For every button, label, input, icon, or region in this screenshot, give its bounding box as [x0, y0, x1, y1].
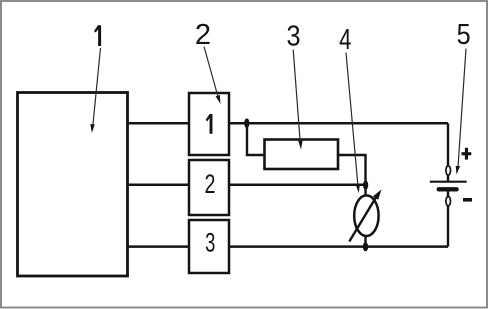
- leader arrow to resistor R1: [293, 50, 302, 150]
- connector X1 cell 3: [189, 220, 229, 273]
- meter PV1 adjustment arrowhead: [373, 190, 382, 200]
- meter PV1 body (item 4): [354, 195, 378, 236]
- battery GB1 top terminal circle: [446, 166, 451, 175]
- svg-text:4: 4: [339, 24, 351, 56]
- svg-text:3: 3: [286, 19, 300, 52]
- wire block1 to cell2: [127, 184, 191, 187]
- svg-text:2: 2: [195, 19, 211, 51]
- wire resistor right lead down to node B: [338, 155, 366, 185]
- battery GB1 negative plate: [439, 187, 457, 191]
- battery plus sign: [462, 148, 472, 160]
- battery minus sign: [463, 198, 472, 202]
- wire block1 to cell1: [127, 122, 191, 125]
- block U1 (device under test, item 1): [18, 93, 128, 277]
- resistor R1 (item 3): [265, 140, 339, 170]
- meter PV1 adjustment arrow shaft: [349, 194, 378, 242]
- wire block1 to cell3: [127, 245, 191, 248]
- leader arrow to block 1: [90, 48, 100, 133]
- wire cell1 to battery (top rail): [228, 122, 448, 125]
- wire cell3 to battery (bottom rail): [228, 245, 448, 248]
- leader arrow to connector: [204, 47, 221, 105]
- wire right rail down to battery plus plate: [447, 123, 449, 181]
- battery GB1 bottom terminal circle: [446, 197, 451, 206]
- connector X1 cell 1 (item 2): [189, 93, 229, 155]
- wire battery minus plate down to bottom rail: [447, 189, 449, 246]
- node C junction dot on bottom rail: [363, 242, 368, 251]
- wire cell2 to meter top node: [228, 184, 366, 187]
- wire meter top stub: [364, 185, 366, 197]
- wire meter bottom stub: [364, 235, 366, 247]
- connector X1 cell 2: [189, 160, 229, 215]
- svg-text:5: 5: [457, 17, 471, 50]
- wire node A down to resistor left lead: [247, 123, 265, 155]
- svg-text:3: 3: [205, 227, 215, 257]
- battery GB1 positive plate: [430, 181, 467, 183]
- node B junction dot at meter top: [363, 180, 368, 189]
- leader arrow to battery GB1: [456, 49, 466, 175]
- leader arrow to meter PV1: [346, 53, 360, 194]
- svg-text:2: 2: [205, 170, 216, 200]
- label 1 drawn as strokes: [95, 25, 100, 46]
- connector X1 cell 1 pin label "1" drawn as strokes: [207, 114, 212, 134]
- node A junction dot on top rail: [244, 118, 249, 128]
